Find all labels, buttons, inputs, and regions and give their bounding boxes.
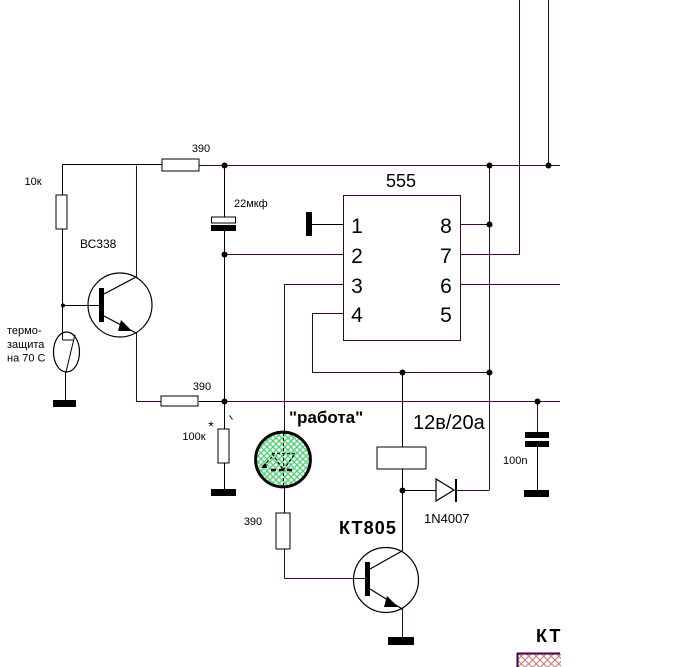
transistor Q1 BC338 (88, 273, 152, 337)
svg-text:5: 5 (440, 304, 452, 327)
ground KT805 (388, 637, 414, 645)
wire 100n bottom (537, 447, 539, 490)
wire R390 to KT805 base (285, 549, 366, 579)
node dot pin8 (487, 222, 493, 228)
resistor R390 top (162, 159, 199, 171)
wire KT805 collector riser (402, 491, 404, 551)
svg-text:390: 390 (244, 516, 262, 528)
wire top rail left (black) (63, 164, 163, 166)
wire top riser x548 (548, 0, 550, 166)
wire R390 top to junction (199, 401, 225, 403)
wire pin7 (461, 254, 520, 256)
svg-text:6: 6 (440, 275, 452, 298)
svg-text:100n: 100n (503, 455, 527, 467)
svg-text:защита: защита (7, 339, 45, 351)
wire relay top (402, 373, 404, 448)
svg-text:КТ: КТ (536, 626, 562, 646)
wire pin2 node down (224, 255, 226, 402)
wire relay bottom (402, 469, 404, 491)
ground thermistor (53, 400, 76, 407)
wire 22mkf branch (224, 166, 226, 218)
node dot rail R390 (222, 399, 228, 405)
LED VD1 (256, 432, 311, 487)
thermistor (54, 332, 80, 372)
capacitor pin1 plate (306, 212, 312, 236)
wire thermistor bottom (65, 372, 67, 400)
svg-text:12в/20а: 12в/20а (413, 412, 486, 434)
svg-text:на 70 С: на 70 С (7, 353, 46, 365)
node dot reset rail (487, 370, 493, 376)
wire pin6 (461, 284, 560, 286)
wire KT805 emitter drop (402, 609, 404, 637)
node dot base (61, 304, 65, 308)
diode 1N4007 (436, 479, 456, 502)
partial component bottom right (517, 653, 561, 667)
resistor R390 mid (161, 396, 198, 406)
svg-text:2: 2 (351, 245, 363, 268)
wire diode anode (403, 490, 437, 492)
wire BC338 base (63, 305, 100, 307)
capacitor 100n (525, 432, 549, 447)
svg-text:1: 1 (351, 215, 363, 238)
svg-text:555: 555 (386, 171, 416, 191)
node dot riser x548 (546, 163, 552, 169)
op-amp U1 555 box (344, 196, 461, 341)
resistor 100k (218, 429, 229, 463)
wire pin2 (225, 254, 344, 256)
ground 100k (211, 489, 236, 496)
wire pin3 to LED (285, 285, 344, 433)
svg-text:термо-: термо- (7, 325, 42, 337)
wire LED cathode to R390 (284, 487, 286, 513)
wire top rail right (purple) (199, 165, 560, 167)
svg-text:3: 3 (351, 275, 363, 298)
svg-text:7: 7 (440, 245, 452, 268)
wire power rail y401 (225, 401, 561, 403)
node dot diode (400, 488, 406, 494)
relay coil K1 (377, 447, 426, 469)
wire pin1 (312, 224, 343, 226)
svg-text:8: 8 (440, 215, 452, 238)
wire 100k top (224, 402, 226, 430)
svg-text:"работа": "работа" (289, 408, 363, 427)
svg-text:1N4007: 1N4007 (424, 511, 470, 526)
resistor 10k (56, 195, 67, 229)
capacitor 22mkf (211, 217, 236, 231)
wire vcc vertical x489 (489, 166, 491, 491)
svg-text:*: * (208, 418, 214, 434)
svg-text:390: 390 (193, 381, 211, 393)
node dot vcc rail top (487, 163, 493, 169)
svg-text:390: 390 (192, 143, 210, 155)
node dot top rail / 22mkf (222, 163, 228, 169)
svg-text:ВС338: ВС338 (80, 237, 117, 251)
wire 10k top drop (62, 165, 64, 196)
svg-text:100к: 100к (182, 431, 205, 443)
transistor Q2 KT805 (354, 548, 419, 613)
node dot pin2 (222, 252, 228, 258)
wire pin7 riser x519 (519, 0, 521, 255)
wire 100k bottom (224, 463, 226, 489)
svg-text:10к: 10к (24, 176, 41, 188)
wire 100n top (537, 402, 539, 433)
wire pin8 (461, 224, 490, 226)
svg-text:КТ805: КТ805 (339, 518, 397, 538)
wire 22mkf to pin2 node (224, 231, 226, 255)
resistor R390 led (276, 513, 290, 549)
node dot reset relay (400, 370, 406, 376)
tick mark (230, 416, 233, 420)
wire BC338 emitter drop (137, 333, 162, 402)
svg-text:4: 4 (351, 304, 363, 327)
wire BC338 collector riser (136, 166, 138, 277)
ground bar 100n (524, 490, 549, 497)
wire 10k bottom to base node (62, 229, 64, 340)
wire pin4 reset loop (313, 314, 490, 373)
svg-text:22мкф: 22мкф (234, 198, 268, 210)
wire diode cathode to rail (456, 490, 490, 492)
node dot rail 100n (535, 399, 541, 405)
